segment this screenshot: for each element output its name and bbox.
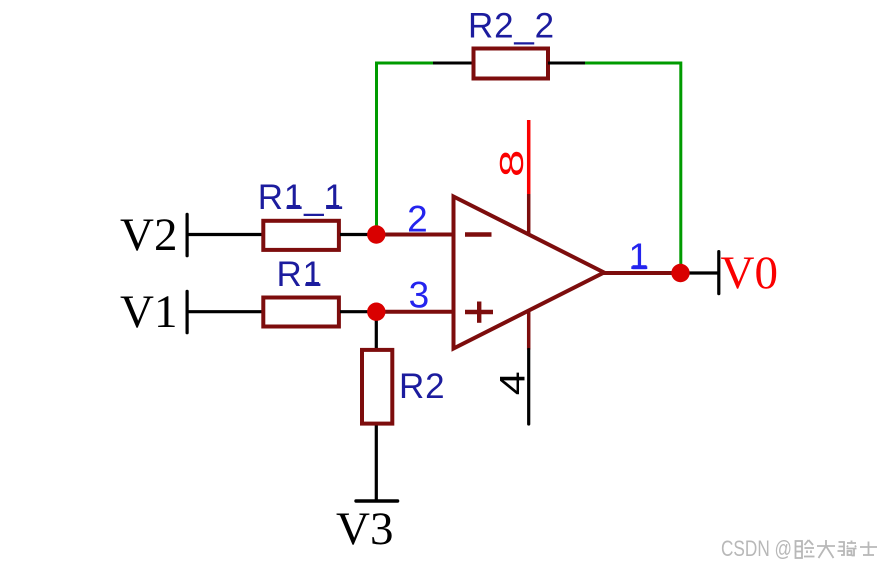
- svg-text:R1: R1: [277, 255, 323, 294]
- svg-text:V2: V2: [120, 209, 177, 261]
- svg-text:R2: R2: [399, 367, 445, 406]
- svg-text:V3: V3: [336, 503, 393, 555]
- svg-text:2: 2: [407, 199, 428, 240]
- svg-text:R2_2: R2_2: [468, 6, 555, 45]
- svg-text:8: 8: [493, 150, 530, 178]
- svg-text:3: 3: [409, 274, 430, 315]
- svg-text:V1: V1: [120, 286, 177, 338]
- svg-text:R1_1: R1_1: [258, 178, 345, 217]
- svg-text:4: 4: [493, 371, 532, 395]
- svg-text:1: 1: [629, 236, 650, 277]
- svg-text:V0: V0: [721, 247, 778, 299]
- svg-text:CSDN @: CSDN @: [721, 536, 792, 561]
